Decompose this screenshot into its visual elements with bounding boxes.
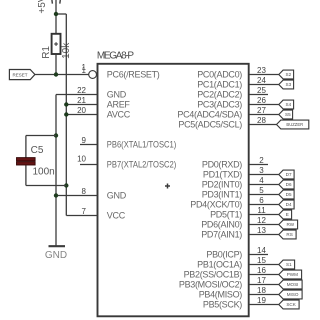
svg-text:PC3(ADC3): PC3(ADC3) [197, 100, 242, 110]
svg-text:5: 5 [259, 186, 264, 195]
svg-text:E: E [286, 212, 289, 217]
svg-text:21: 21 [77, 96, 86, 105]
svg-text:PC4(ADC4/SDA): PC4(ADC4/SDA) [177, 110, 242, 120]
svg-text:+5V: +5V [37, 0, 48, 14]
svg-text:PB4(MISO): PB4(MISO) [199, 290, 243, 300]
svg-text:10: 10 [77, 155, 86, 164]
svg-text:7: 7 [82, 207, 87, 216]
svg-text:PD1(TXD): PD1(TXD) [203, 170, 242, 180]
svg-text:PC0(ADC0): PC0(ADC0) [197, 70, 242, 80]
svg-text:PD5(T1): PD5(T1) [210, 210, 242, 220]
svg-text:GND: GND [45, 250, 67, 261]
svg-text:D5: D5 [286, 192, 292, 197]
svg-text:C5: C5 [31, 145, 44, 156]
svg-text:D7: D7 [286, 172, 292, 177]
svg-text:23: 23 [257, 66, 266, 75]
svg-text:RW: RW [287, 222, 295, 227]
svg-text:S2: S2 [286, 72, 292, 77]
svg-text:20: 20 [77, 106, 86, 115]
svg-text:MEGA8-P: MEGA8-P [97, 51, 135, 62]
svg-text:SCK: SCK [286, 302, 296, 307]
svg-text:22: 22 [77, 86, 86, 95]
svg-text:9: 9 [82, 136, 87, 145]
svg-text:24: 24 [257, 76, 266, 85]
svg-text:PC2(ADC2): PC2(ADC2) [197, 90, 242, 100]
svg-text:2: 2 [259, 156, 264, 165]
svg-text:PD7(AIN1): PD7(AIN1) [201, 230, 242, 240]
svg-text:MOSI: MOSI [287, 282, 299, 287]
svg-text:VCC: VCC [107, 211, 126, 221]
svg-text:16: 16 [257, 266, 266, 275]
svg-text:AVCC: AVCC [107, 110, 131, 120]
svg-text:PB0(ICP): PB0(ICP) [206, 250, 242, 260]
svg-text:PC6(/RESET): PC6(/RESET) [107, 70, 160, 80]
svg-text:S5: S5 [285, 112, 291, 117]
svg-text:PB5(SCK): PB5(SCK) [203, 300, 242, 310]
svg-text:PB2(SS/OC1B): PB2(SS/OC1B) [184, 270, 243, 280]
svg-text:PB1(OC1A): PB1(OC1A) [197, 260, 242, 270]
svg-text:RS: RS [286, 232, 292, 237]
svg-text:PD3(INT1): PD3(INT1) [202, 190, 243, 200]
svg-text:S3: S3 [286, 82, 292, 87]
svg-text:8: 8 [82, 187, 87, 196]
svg-text:PD4(XCK/T0): PD4(XCK/T0) [190, 200, 242, 210]
svg-text:14: 14 [257, 246, 266, 255]
svg-text:PC5(ADC5/SCL): PC5(ADC5/SCL) [178, 120, 242, 130]
svg-text:RESET: RESET [12, 72, 27, 77]
svg-text:13: 13 [257, 226, 266, 235]
svg-text:PD6(AIN0): PD6(AIN0) [201, 220, 242, 230]
svg-text:PB6(XTAL1/TOSC1): PB6(XTAL1/TOSC1) [107, 140, 177, 150]
svg-text:R1: R1 [41, 46, 52, 59]
svg-text:11: 11 [257, 206, 266, 215]
svg-text:3: 3 [259, 166, 264, 175]
svg-text:19: 19 [257, 296, 266, 305]
svg-text:28: 28 [257, 116, 266, 125]
svg-text:12: 12 [257, 216, 266, 225]
svg-text:D6: D6 [286, 182, 292, 187]
svg-text:MISO: MISO [287, 292, 299, 297]
svg-text:18: 18 [257, 286, 266, 295]
svg-text:D4: D4 [286, 202, 292, 207]
svg-text:PD2(INT0): PD2(INT0) [202, 180, 243, 190]
svg-text:GND: GND [107, 90, 127, 100]
svg-text:15: 15 [257, 256, 266, 265]
svg-text:1: 1 [82, 63, 87, 72]
svg-text:PD0(RXD): PD0(RXD) [202, 160, 242, 170]
svg-text:26: 26 [257, 96, 266, 105]
svg-text:6: 6 [259, 196, 264, 205]
svg-text:PWM: PWM [287, 272, 298, 277]
svg-text:S1: S1 [286, 262, 292, 267]
svg-text:PB7(XTAL2/TOSC2): PB7(XTAL2/TOSC2) [107, 160, 177, 170]
svg-text:4: 4 [259, 176, 264, 185]
svg-text:S4: S4 [286, 102, 292, 107]
svg-text:17: 17 [257, 276, 266, 285]
svg-text:100n: 100n [33, 167, 55, 178]
svg-text:BUZZER: BUZZER [286, 122, 303, 127]
svg-text:PC1(ADC1): PC1(ADC1) [197, 80, 242, 90]
svg-text:25: 25 [257, 86, 266, 95]
svg-text:PB3(MOSI/OC2): PB3(MOSI/OC2) [179, 280, 242, 290]
svg-text:GND: GND [107, 191, 127, 201]
svg-text:27: 27 [257, 106, 266, 115]
svg-text:AREF: AREF [107, 100, 131, 110]
